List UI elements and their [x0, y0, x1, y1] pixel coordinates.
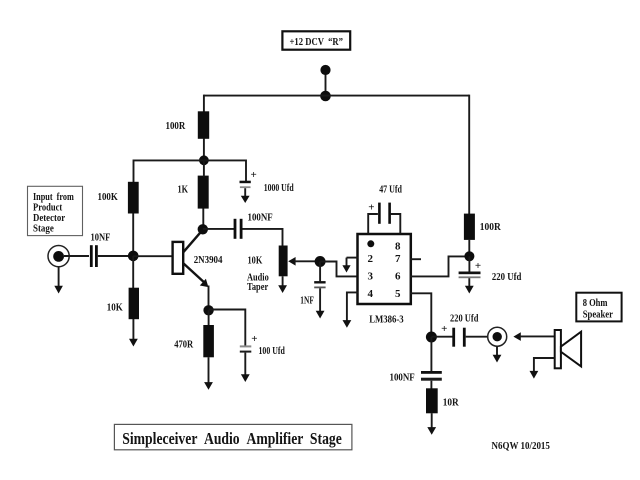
capacitor C9 100 Ufd polarized — [240, 345, 252, 352]
svg-text:10NF: 10NF — [91, 232, 111, 243]
wire C7 to J2 — [466, 336, 489, 338]
op-amp U1 LM386-3 body — [358, 234, 411, 304]
svg-text:100R: 100R — [166, 121, 186, 132]
wire output node down to C8 — [430, 337, 432, 371]
node A junction dot — [199, 155, 209, 165]
svg-text:220 Ufd: 220 Ufd — [492, 272, 522, 283]
wire R1 bottom to node A — [203, 139, 205, 162]
capacitor C8 100NF — [421, 371, 442, 381]
resistor R7 10R body — [426, 388, 438, 413]
wire output node to C7 — [431, 336, 452, 338]
potentiometer VR1 10K body — [279, 246, 288, 277]
svg-text:Detector: Detector — [33, 213, 66, 224]
ground at pin 4 — [343, 320, 352, 328]
resistor R2 1K body — [198, 176, 209, 209]
node wiper junction dot — [315, 256, 326, 267]
svg-text:470R: 470R — [174, 339, 193, 350]
ground below C4 — [316, 288, 325, 318]
wire J1 to C1 — [64, 255, 89, 257]
connector J1 input RCA jack — [48, 246, 69, 267]
node right junction dot — [464, 251, 474, 261]
wire node A row right — [204, 159, 246, 161]
wire down to C2 1000Ufd — [245, 160, 247, 182]
svg-text:10R: 10R — [443, 398, 459, 409]
ground below C9 — [241, 353, 250, 382]
capacitor C5 47 Ufd bypass — [368, 203, 400, 234]
capacitor C1 10NF — [90, 245, 98, 267]
wire C3 to pot top corner — [243, 229, 283, 246]
svg-text:+: + — [251, 169, 257, 181]
transistor Q1 2N3904 — [173, 230, 209, 287]
wire wiper node down to C4 — [319, 262, 321, 282]
svg-text:8: 8 — [395, 240, 401, 252]
svg-text:10K: 10K — [248, 256, 263, 267]
svg-text:5: 5 — [395, 288, 401, 300]
svg-text:100 Ufd: 100 Ufd — [259, 346, 286, 357]
node base junction dot — [128, 251, 139, 262]
wire node A to R2 top — [203, 160, 205, 176]
ground at pin 2 — [342, 258, 350, 273]
svg-text:Input from: Input from — [33, 192, 74, 203]
svg-text:100K: 100K — [98, 192, 119, 203]
svg-text:100NF: 100NF — [390, 373, 415, 384]
ground at speaker — [530, 358, 555, 379]
wire pin 4 to ground — [347, 292, 359, 321]
wire emitter down to emitter node — [208, 286, 210, 312]
svg-text:+: + — [251, 333, 257, 345]
wire C1 to base node — [98, 255, 133, 257]
wire emitter node down to R5 — [208, 310, 210, 326]
wire pin 7 stub — [410, 258, 421, 260]
svg-text:100NF: 100NF — [248, 212, 273, 223]
wire R6 bottom to right node — [468, 240, 470, 257]
wire R2 bottom to collector node — [202, 209, 204, 230]
wire down to 100K top — [133, 160, 135, 183]
input label box — [28, 186, 83, 235]
title box — [114, 424, 352, 449]
svg-text:LM386-3: LM386-3 — [369, 314, 404, 325]
wire bus right drop to R6 — [468, 95, 470, 215]
resistor R5 470R body — [203, 325, 214, 357]
svg-text:Speaker: Speaker — [583, 309, 614, 320]
wire power tap — [325, 73, 327, 96]
wire speaker feed with arrow to J2 — [513, 332, 555, 341]
capacitor C6 220 Ufd polarized — [459, 256, 481, 278]
svg-text:10K: 10K — [107, 302, 124, 313]
node bus junction dot — [320, 91, 331, 102]
wire VR1 wiper arrow — [288, 257, 320, 266]
wire +12V bus — [204, 95, 469, 97]
wire bus left drop to R1 — [203, 95, 205, 113]
svg-text:1K: 1K — [178, 184, 189, 195]
speaker LS1 — [555, 330, 581, 368]
svg-text:2N3904: 2N3904 — [194, 255, 223, 266]
ground below R5 — [204, 357, 213, 390]
svg-text:6: 6 — [395, 271, 401, 283]
resistor R3 100K body — [128, 182, 139, 214]
wire emitter node right to C9 branch — [209, 310, 246, 346]
node emitter junction dot — [203, 305, 213, 315]
svg-text:8 Ohm: 8 Ohm — [583, 298, 608, 309]
ground below R4 — [129, 319, 138, 347]
resistor R6 100R body — [464, 214, 475, 240]
svg-text:+12 DCV “R”: +12 DCV “R” — [290, 37, 344, 48]
svg-text:+: + — [441, 323, 447, 335]
svg-text:Product: Product — [33, 203, 63, 214]
ground below C6 — [465, 278, 474, 293]
wire node A row left — [134, 159, 204, 161]
node collector junction dot — [198, 224, 208, 234]
svg-text:Taper: Taper — [247, 282, 268, 293]
resistor R4 10K body — [129, 288, 139, 320]
ground below J2 — [493, 346, 502, 362]
node power tap upper dot — [320, 65, 330, 75]
ground below J1 — [54, 267, 63, 294]
svg-text:1000 Ufd: 1000 Ufd — [264, 183, 294, 194]
svg-text:+: + — [475, 260, 481, 272]
svg-text:3: 3 — [368, 271, 374, 283]
resistor R1 100R body — [198, 111, 209, 139]
svg-text:7: 7 — [395, 253, 401, 265]
node output junction dot — [426, 332, 437, 343]
svg-text:2: 2 — [368, 253, 374, 265]
ground below R7 — [427, 413, 436, 435]
wire collector row to C3 — [203, 228, 234, 230]
wire C8 to R7 — [430, 381, 432, 389]
svg-text:Simpleceiver Audio Amplifier: Simpleceiver Audio Amplifier Stage — [122, 429, 342, 448]
svg-text:1NF: 1NF — [300, 296, 314, 307]
speaker label box — [576, 293, 621, 322]
svg-text:4: 4 — [368, 288, 374, 300]
svg-text:Stage: Stage — [33, 224, 54, 235]
pin 1 marker dot — [367, 240, 374, 247]
capacitor C7 220 Ufd coupling — [452, 328, 465, 347]
svg-text:47 Ufd: 47 Ufd — [379, 184, 402, 195]
wire R3 bottom to base node — [132, 213, 134, 256]
connector J2 output RCA jack — [488, 327, 507, 346]
svg-text:+: + — [368, 201, 374, 213]
wire wiper node jog to pin 3 — [320, 262, 358, 277]
ground below VR1 — [278, 276, 287, 293]
wire pin 2 to ground — [347, 257, 359, 259]
wire base node to Q1 base — [133, 255, 173, 257]
svg-text:220 Ufd: 220 Ufd — [450, 314, 479, 325]
wire pin 5 to output node — [410, 293, 431, 333]
power label box +12 DCV "R" — [282, 31, 350, 49]
wire pin 6 to right node — [410, 256, 465, 276]
capacitor C3 100NF — [234, 219, 243, 239]
svg-text:N6QW 10/2015: N6QW 10/2015 — [492, 441, 550, 452]
capacitor C2 1000 Ufd polarized — [240, 181, 251, 203]
wire base node down to R4 — [132, 256, 134, 289]
capacitor C4 1NF — [314, 281, 325, 288]
svg-text:100R: 100R — [480, 222, 501, 233]
